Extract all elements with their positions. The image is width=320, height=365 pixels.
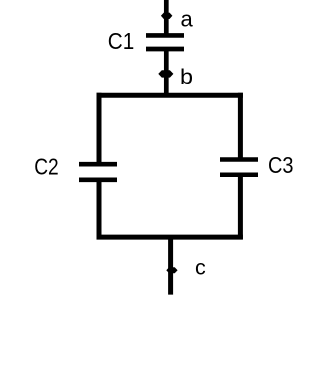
svg-text:a: a bbox=[181, 6, 194, 31]
node c bbox=[166, 267, 177, 273]
svg-text:C1: C1 bbox=[108, 28, 135, 54]
capacitor C2 top plate bbox=[79, 162, 117, 167]
svg-text:C3: C3 bbox=[268, 152, 294, 178]
wire right branch upper bbox=[238, 93, 243, 160]
wire top lead into C1 bbox=[164, 0, 169, 36]
capacitor C3 bottom plate bbox=[220, 172, 258, 177]
svg-text:b: b bbox=[180, 65, 193, 89]
wire loop top edge bbox=[97, 93, 243, 98]
wire right branch lower bbox=[238, 175, 243, 240]
wire left branch lower bbox=[97, 180, 102, 239]
svg-text:C2: C2 bbox=[34, 153, 59, 179]
node b bbox=[158, 70, 173, 77]
node a bbox=[161, 13, 173, 19]
capacitor C1 top plate bbox=[146, 33, 184, 38]
capacitor C1 bottom plate bbox=[146, 47, 184, 52]
capacitor C2 bottom plate bbox=[79, 178, 117, 183]
svg-text:c: c bbox=[195, 256, 206, 280]
wire bottom lead bbox=[168, 237, 173, 295]
capacitor C3 top plate bbox=[220, 157, 258, 162]
wire C1 to node b to loop top bbox=[164, 49, 169, 95]
wire left branch upper bbox=[97, 93, 102, 164]
wire loop bottom edge bbox=[97, 235, 243, 240]
